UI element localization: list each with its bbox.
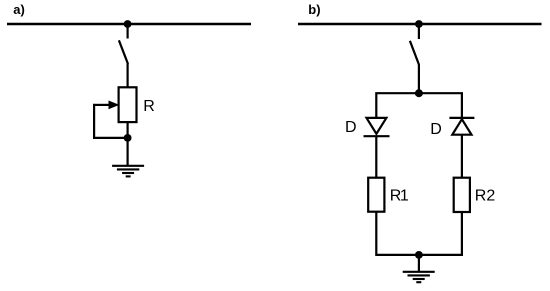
node: bus junction a: [124, 20, 132, 28]
svg-text:b): b): [308, 2, 320, 17]
wire: switch to resistor R: [126, 64, 128, 88]
diode D2 (right, cathode up): [449, 118, 474, 135]
wire: R1 to bottom rail: [376, 212, 419, 255]
svg-text:R2: R2: [475, 188, 496, 205]
rheostat wiper arrow: [95, 101, 119, 110]
svg-text:D: D: [345, 119, 357, 136]
switch S1 blade (open): [119, 40, 128, 64]
wire: top rail right to diode D2: [419, 93, 462, 117]
resistor R body: [119, 87, 137, 122]
wire: top rail left to diode D1: [376, 93, 419, 118]
svg-text:R: R: [143, 98, 155, 115]
wire: R2 to bottom rail: [419, 212, 462, 255]
wire: supply bus b: [298, 23, 542, 26]
wire: wiper feedback loop: [94, 105, 128, 138]
wire: bottom rail to ground b: [418, 255, 420, 272]
wire: D1 to R1: [375, 136, 377, 178]
switch S2 blade (open): [410, 41, 419, 65]
node: bus junction b: [415, 20, 423, 28]
node: bottom junction b: [415, 251, 423, 259]
svg-text:R1: R1: [390, 188, 409, 205]
svg-text:D: D: [430, 121, 442, 138]
wire: switch to branch node: [418, 64, 420, 93]
wire: supply bus a: [7, 23, 251, 26]
wire: stub from bus to switch a: [126, 24, 128, 39]
diode D1 (left, cathode down): [364, 118, 390, 136]
wire: resistor to ground a: [126, 122, 128, 166]
wire: stub from bus to switch b: [418, 24, 420, 39]
wire: D2 to R2: [461, 135, 463, 178]
node: branch split: [415, 89, 423, 97]
svg-text:a): a): [13, 2, 25, 17]
resistor R1 body: [368, 178, 384, 212]
node: resistor bottom junction a: [124, 134, 132, 142]
resistor R2 body: [454, 178, 470, 212]
ground b: [403, 272, 435, 282]
ground a: [112, 166, 144, 177]
